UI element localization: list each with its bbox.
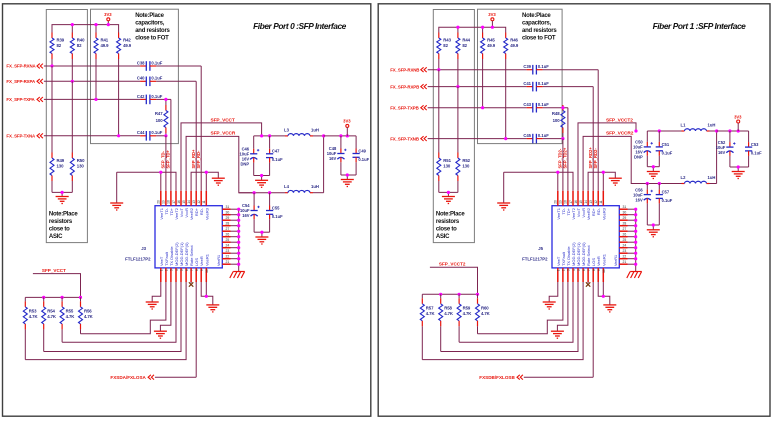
svg-text:3V3: 3V3 xyxy=(104,12,112,17)
svg-text:C44: C44 xyxy=(137,130,145,135)
svg-text:R39: R39 xyxy=(57,38,65,43)
wire pins 9/10 join xyxy=(201,283,213,305)
junction dot xyxy=(237,246,240,249)
junction dot xyxy=(237,224,240,227)
wire filter cap gnd rail xyxy=(647,167,659,172)
svg-text:VeeR1: VeeR1 xyxy=(614,255,618,266)
svg-text:19: 19 xyxy=(162,200,166,204)
svg-text:30: 30 xyxy=(226,211,230,215)
capacitor C54 xyxy=(240,193,260,233)
resistor R60 4.7K xyxy=(476,294,491,334)
wire FX_SFP-TXPB xyxy=(428,108,568,191)
svg-text:R42: R42 xyxy=(123,38,131,43)
IC top pin stubs xyxy=(161,191,207,206)
svg-text:ASIC: ASIC xyxy=(436,234,450,240)
svg-text:SFP_VCCT2: SFP_VCCT2 xyxy=(439,262,466,267)
net label FX_SFP-RXNB xyxy=(390,67,427,72)
capacitor C50 xyxy=(633,131,653,167)
svg-text:R47: R47 xyxy=(155,111,163,116)
junction dot xyxy=(646,182,649,185)
IC bottom pin stubs xyxy=(161,268,207,283)
svg-text:3V3: 3V3 xyxy=(488,12,496,17)
svg-text:130: 130 xyxy=(77,164,85,169)
power 3V3 (termination rail) xyxy=(104,12,112,25)
svg-text:0.1uF: 0.1uF xyxy=(151,60,162,65)
svg-text:FX_SFP-RXNB: FX_SFP-RXNB xyxy=(390,67,419,72)
svg-text:close to: close to xyxy=(49,227,70,233)
wire pin1 to ground xyxy=(152,283,161,302)
svg-text:FXSDA/FXLOSA: FXSDA/FXLOSA xyxy=(110,375,146,380)
svg-text:82: 82 xyxy=(77,43,82,48)
svg-text:L3: L3 xyxy=(284,127,290,132)
capacitor C45 xyxy=(523,133,549,143)
svg-text:VeeR1: VeeR1 xyxy=(217,255,221,266)
wire pin1 to ground xyxy=(549,283,558,302)
svg-text:0.1uF: 0.1uF xyxy=(272,214,283,219)
ground xyxy=(206,305,219,312)
junction dot xyxy=(634,235,637,238)
capacitor C57 xyxy=(656,184,673,226)
svg-text:resistors: resistors xyxy=(436,219,460,225)
junction dot xyxy=(237,263,240,266)
capacitor C51 xyxy=(656,131,673,167)
svg-text:12: 12 xyxy=(197,200,201,204)
svg-text:15: 15 xyxy=(182,200,186,204)
svg-text:17: 17 xyxy=(172,200,176,204)
svg-text:4.7K: 4.7K xyxy=(444,311,454,316)
wire pullup R55 to MOD-DEF(2) xyxy=(459,283,573,342)
net label SFP_RD- xyxy=(196,150,201,169)
svg-text:20: 20 xyxy=(554,200,558,204)
resistor R55 4.7K xyxy=(60,297,75,342)
IC top pin numbers xyxy=(157,200,207,204)
wire cap gnd rail 2 xyxy=(647,225,659,230)
svg-text:0.1uF: 0.1uF xyxy=(151,130,162,135)
svg-text:11: 11 xyxy=(202,200,206,204)
svg-text:DNP: DNP xyxy=(240,162,249,167)
junction dot xyxy=(268,191,271,194)
IC right inner name VeeR1 xyxy=(614,255,618,266)
wire cap gnd rail 3 xyxy=(341,175,356,180)
junction dot xyxy=(602,295,605,298)
svg-text:16V: 16V xyxy=(329,156,337,161)
junction dot xyxy=(634,252,637,255)
svg-text:6: 6 xyxy=(185,269,189,271)
power 3V3 (filter output) xyxy=(343,119,351,136)
svg-text:R48: R48 xyxy=(552,111,560,116)
junction dot xyxy=(107,23,110,26)
wire SFP_VCCT feed xyxy=(430,267,478,294)
ground xyxy=(154,331,167,338)
chassis ground xyxy=(230,272,245,279)
svg-text:8: 8 xyxy=(195,269,199,271)
capacitor C53 xyxy=(745,131,762,167)
svg-text:C55: C55 xyxy=(272,205,280,210)
svg-text:100: 100 xyxy=(553,118,561,123)
resistor R51 130 xyxy=(437,70,452,193)
wire pullup rail xyxy=(25,296,80,298)
svg-text:0.1uF: 0.1uF xyxy=(538,81,549,86)
svg-text:6: 6 xyxy=(582,269,586,271)
junction dot xyxy=(481,106,484,109)
svg-text:SFP_RD2-: SFP_RD2- xyxy=(593,148,598,169)
resistor R42 49.9 xyxy=(117,33,132,136)
title xyxy=(253,21,347,31)
wire SFP_VCCT xyxy=(181,123,262,191)
IC bottom pin stubs xyxy=(558,268,604,283)
svg-text:and resistors: and resistors xyxy=(135,28,170,34)
wire R40 top lead xyxy=(457,27,459,32)
svg-text:FX_SFP-TXNB: FX_SFP-TXNB xyxy=(390,136,419,141)
svg-text:130: 130 xyxy=(57,164,65,169)
junction dot xyxy=(658,182,661,185)
wire pullup R54 to MOD-DEF(1) xyxy=(44,283,181,352)
junction dot xyxy=(237,257,240,260)
junction dot xyxy=(164,134,167,137)
net label FX_SFP-TXPA xyxy=(6,97,43,102)
svg-text:5: 5 xyxy=(577,269,581,271)
resistor R56 4.7K xyxy=(79,297,94,333)
no-connect X (Rate Select) xyxy=(189,282,193,286)
svg-text:FX_SFP-TXPB: FX_SFP-TXPB xyxy=(390,105,418,110)
junction dot xyxy=(237,241,240,244)
junction dot xyxy=(322,134,325,137)
resistor R50 130 xyxy=(70,81,85,192)
junction dot xyxy=(491,26,494,29)
svg-text:26: 26 xyxy=(226,233,230,237)
svg-text:29: 29 xyxy=(623,216,627,220)
ground xyxy=(212,178,225,185)
IC right pin stubs xyxy=(222,209,238,264)
wire pullup rail xyxy=(422,293,477,295)
svg-text:and resistors: and resistors xyxy=(522,28,557,34)
note text FOT xyxy=(522,13,557,42)
svg-text:13: 13 xyxy=(589,200,593,204)
junction dot xyxy=(447,191,450,194)
svg-text:4: 4 xyxy=(572,269,576,271)
title xyxy=(653,21,747,31)
net label SFP_VCCT2 xyxy=(606,117,633,123)
junction dot xyxy=(634,246,637,249)
svg-text:SFP_VCCR: SFP_VCCR xyxy=(211,130,236,136)
svg-text:L4: L4 xyxy=(284,184,290,189)
svg-text:FTLF1217P2: FTLF1217P2 xyxy=(522,257,548,262)
svg-text:31: 31 xyxy=(226,205,230,209)
wire pins 9/10 join xyxy=(598,283,610,305)
capacitor C41 xyxy=(523,81,549,91)
junction dot xyxy=(237,219,240,222)
capacitor C48 xyxy=(327,136,347,175)
junction dot xyxy=(50,64,53,67)
svg-text:31: 31 xyxy=(623,205,627,209)
resistor R48 100 xyxy=(552,105,565,139)
svg-text:R45: R45 xyxy=(487,38,495,43)
inductor L1 1uH xyxy=(681,123,716,132)
note box (resistors close to ASIC) xyxy=(46,10,87,243)
junction dot xyxy=(658,129,661,132)
svg-text:4.7K: 4.7K xyxy=(481,311,491,316)
panel border xyxy=(378,4,770,416)
junction dot xyxy=(715,129,718,132)
resistor R58 4.7K xyxy=(439,294,454,351)
svg-text:3: 3 xyxy=(170,269,174,271)
svg-text:4.7K: 4.7K xyxy=(66,314,76,319)
svg-text:0.1uF: 0.1uF xyxy=(662,150,673,155)
svg-text:0.1uF: 0.1uF xyxy=(662,198,673,203)
junction dot xyxy=(237,252,240,255)
resistor R39 82 xyxy=(50,33,65,67)
junction dot xyxy=(476,293,479,296)
junction dot xyxy=(634,219,637,222)
wire inductor join xyxy=(716,131,718,184)
svg-text:ASIC: ASIC xyxy=(49,234,63,240)
svg-text:1uH: 1uH xyxy=(311,127,319,132)
junction dot xyxy=(561,106,564,109)
junction dot xyxy=(634,257,637,260)
junction dot xyxy=(602,171,605,174)
svg-text:15: 15 xyxy=(579,200,583,204)
svg-text:12: 12 xyxy=(594,200,598,204)
svg-text:1uH: 1uH xyxy=(311,184,319,189)
resistor R47 100 xyxy=(155,99,168,135)
wire pullup R53 to MOD-DEF(0) xyxy=(422,283,583,360)
ground xyxy=(497,203,510,210)
wire FX_SFP-RXNB xyxy=(428,70,599,191)
wire R41 top lead xyxy=(482,27,484,32)
IC top pin stubs xyxy=(558,191,604,206)
svg-text:0.1uF: 0.1uF xyxy=(538,102,549,107)
svg-text:R56: R56 xyxy=(84,308,92,313)
svg-text:100: 100 xyxy=(156,118,164,123)
svg-text:SFP_RD-: SFP_RD- xyxy=(196,150,201,169)
svg-text:J3: J3 xyxy=(141,246,146,251)
svg-text:16V: 16V xyxy=(242,213,250,218)
svg-text:22: 22 xyxy=(623,255,627,259)
junction dot xyxy=(481,26,484,29)
junction dot xyxy=(728,129,731,132)
svg-text:2: 2 xyxy=(165,269,169,271)
resistor R53 4.7K xyxy=(23,297,38,359)
ground xyxy=(551,331,564,338)
op-amp/IC J5 FTLF1217P2 outline xyxy=(522,206,619,268)
svg-text:FX_SFP-RXPB: FX_SFP-RXPB xyxy=(390,84,419,89)
resistor R40 82 xyxy=(70,33,85,82)
ground xyxy=(609,178,622,185)
svg-text:30: 30 xyxy=(623,211,627,215)
junction dot xyxy=(737,165,740,168)
svg-text:FX_SFP-TXNA: FX_SFP-TXNA xyxy=(6,134,36,139)
svg-text:close to: close to xyxy=(436,227,457,233)
wire LOS xyxy=(155,283,196,377)
svg-text:29: 29 xyxy=(226,216,230,220)
ground xyxy=(255,180,268,187)
junction dot xyxy=(117,134,120,137)
svg-text:close to FOT: close to FOT xyxy=(522,36,556,42)
svg-text:21: 21 xyxy=(226,260,230,264)
ground xyxy=(341,180,354,187)
svg-text:16V: 16V xyxy=(718,150,726,155)
ground xyxy=(442,197,455,204)
svg-text:Fiber Port 0 :SFP Interface: Fiber Port 0 :SFP Interface xyxy=(253,21,347,31)
junction dot xyxy=(634,213,637,216)
wire R41 top lead xyxy=(95,25,97,33)
svg-text:23: 23 xyxy=(623,249,627,253)
wire R40 top lead xyxy=(71,25,73,33)
junction dot xyxy=(237,213,240,216)
net label FXSDB/FXLOSB xyxy=(479,375,523,380)
capacitor C42 xyxy=(137,94,163,104)
ground xyxy=(56,197,69,204)
resistor R57 4.7K xyxy=(420,294,435,359)
junction dot xyxy=(159,171,162,174)
resistor R49 130 xyxy=(50,66,65,192)
svg-text:18: 18 xyxy=(564,200,568,204)
net label SFP_VCCR2 xyxy=(606,130,634,136)
capacitor C55 xyxy=(266,193,283,233)
svg-text:R53: R53 xyxy=(29,308,37,313)
wire LOS xyxy=(524,283,593,377)
wire SFP_VCCT feed xyxy=(33,274,81,298)
net label FX_SFP-TXPB xyxy=(390,105,427,110)
capacitor C40 xyxy=(137,76,163,86)
net label SFP_TD- xyxy=(161,150,166,168)
svg-text:27: 27 xyxy=(226,227,230,231)
svg-text:19: 19 xyxy=(559,200,563,204)
svg-text:close to FOT: close to FOT xyxy=(135,36,169,42)
wire SFP_VCCR2 xyxy=(583,136,647,190)
resistor R43 82 xyxy=(437,33,452,70)
svg-text:7: 7 xyxy=(190,269,194,271)
ground xyxy=(647,172,660,179)
junction dot xyxy=(260,231,263,234)
svg-text:VeeR3: VeeR3 xyxy=(204,207,209,220)
inductor L4 1uH xyxy=(284,184,319,193)
capacitor C43 xyxy=(523,102,549,112)
wire TD- drop xyxy=(562,139,564,191)
wire VeeT rail xyxy=(504,172,573,203)
junction dot xyxy=(253,191,256,194)
junction dot xyxy=(634,230,637,233)
ground xyxy=(543,302,556,309)
svg-text:SFP_TD2+: SFP_TD2+ xyxy=(563,147,568,168)
svg-text:C42: C42 xyxy=(137,94,145,99)
junction dot xyxy=(61,191,64,194)
svg-text:C45: C45 xyxy=(523,133,531,138)
wire pullup R56 to TXFault xyxy=(478,283,563,334)
svg-text:10: 10 xyxy=(205,269,209,273)
capacitor C47 xyxy=(266,136,283,176)
ground xyxy=(146,302,159,309)
svg-text:R41: R41 xyxy=(101,38,109,43)
svg-text:16: 16 xyxy=(177,200,181,204)
junction dot xyxy=(237,235,240,238)
IC right pin stubs xyxy=(619,209,635,264)
svg-text:23: 23 xyxy=(226,249,230,253)
net label SFP_RD+ xyxy=(191,149,196,169)
no-connect X (Rate Select) xyxy=(586,282,590,286)
svg-text:R57: R57 xyxy=(426,305,434,310)
svg-text:J5: J5 xyxy=(538,246,543,251)
wire pin3 to ground xyxy=(160,283,171,331)
wire R130 join xyxy=(439,192,458,196)
net label FX_SFP-RXNA xyxy=(6,64,43,69)
junction dot xyxy=(268,134,271,137)
capacitor C39 xyxy=(523,64,549,74)
svg-text:21: 21 xyxy=(623,260,627,264)
resistor R52 130 xyxy=(456,87,471,193)
svg-text:1: 1 xyxy=(160,269,164,271)
svg-text:20: 20 xyxy=(157,200,161,204)
wire filter cap gnd rail xyxy=(254,176,270,181)
wire VeeR rail xyxy=(191,172,218,191)
wire FX_SFP-TXNA xyxy=(44,135,166,137)
svg-text:C57: C57 xyxy=(662,190,670,195)
capacitor C56 xyxy=(633,184,653,226)
wire FX_SFP-RXPB xyxy=(428,87,594,191)
junction dot xyxy=(439,293,442,296)
svg-text:0.1uF: 0.1uF xyxy=(751,151,762,156)
svg-text:SFP_VCCT: SFP_VCCT xyxy=(42,268,66,273)
svg-text:0.1uF: 0.1uF xyxy=(151,76,162,81)
svg-text:Note:Place: Note:Place xyxy=(436,212,465,218)
svg-text:FXSDB/FXLOSB: FXSDB/FXLOSB xyxy=(479,375,515,380)
svg-text:Note:Place: Note:Place xyxy=(522,13,551,19)
IC bottom pin numbers xyxy=(160,269,210,273)
svg-text:28: 28 xyxy=(623,222,627,226)
wire FX_SFP-RXNA xyxy=(44,66,201,191)
wire VeeT rail xyxy=(117,172,176,203)
svg-text:130: 130 xyxy=(443,164,451,169)
svg-text:28: 28 xyxy=(226,222,230,226)
IC top pin names xyxy=(159,207,210,220)
ground xyxy=(732,172,745,179)
wire pullup R56 to TXFault xyxy=(81,283,166,334)
wire pullup R55 to MOD-DEF(2) xyxy=(62,283,176,342)
svg-text:VeeR3: VeeR3 xyxy=(601,207,606,220)
svg-text:SFP_TD+: SFP_TD+ xyxy=(166,149,171,168)
svg-text:24: 24 xyxy=(623,244,627,248)
svg-text:82: 82 xyxy=(462,43,467,48)
svg-text:R49: R49 xyxy=(57,158,65,163)
svg-text:18: 18 xyxy=(167,200,171,204)
svg-text:FX_SFP-TXPA: FX_SFP-TXPA xyxy=(6,97,35,102)
svg-text:1uH: 1uH xyxy=(708,123,716,128)
junction dot xyxy=(634,208,637,211)
svg-text:R55: R55 xyxy=(66,308,74,313)
junction dot xyxy=(79,296,82,299)
svg-text:4.7K: 4.7K xyxy=(29,314,39,319)
wire 3V3 rail filter xyxy=(324,135,357,137)
wire pullup R53 to MOD-DEF(0) xyxy=(25,283,186,360)
power 3V3 (termination rail) xyxy=(488,12,496,27)
resistor R54 4.7K xyxy=(42,297,57,351)
wire cap gnd rail 3 xyxy=(730,167,749,172)
svg-text:C47: C47 xyxy=(272,149,280,154)
svg-text:17: 17 xyxy=(569,200,573,204)
junction dot xyxy=(634,241,637,244)
svg-text:C40: C40 xyxy=(137,76,145,81)
svg-text:3V3: 3V3 xyxy=(734,114,742,119)
svg-text:0.1uF: 0.1uF xyxy=(272,157,283,162)
net label FX_SFP-RXPB xyxy=(390,84,427,89)
svg-text:2: 2 xyxy=(562,269,566,271)
junction dot xyxy=(205,295,208,298)
ground xyxy=(603,305,616,312)
wire right pin bus xyxy=(635,209,637,271)
svg-text:3: 3 xyxy=(567,269,571,271)
ground xyxy=(110,203,123,210)
svg-text:C39: C39 xyxy=(523,64,531,69)
